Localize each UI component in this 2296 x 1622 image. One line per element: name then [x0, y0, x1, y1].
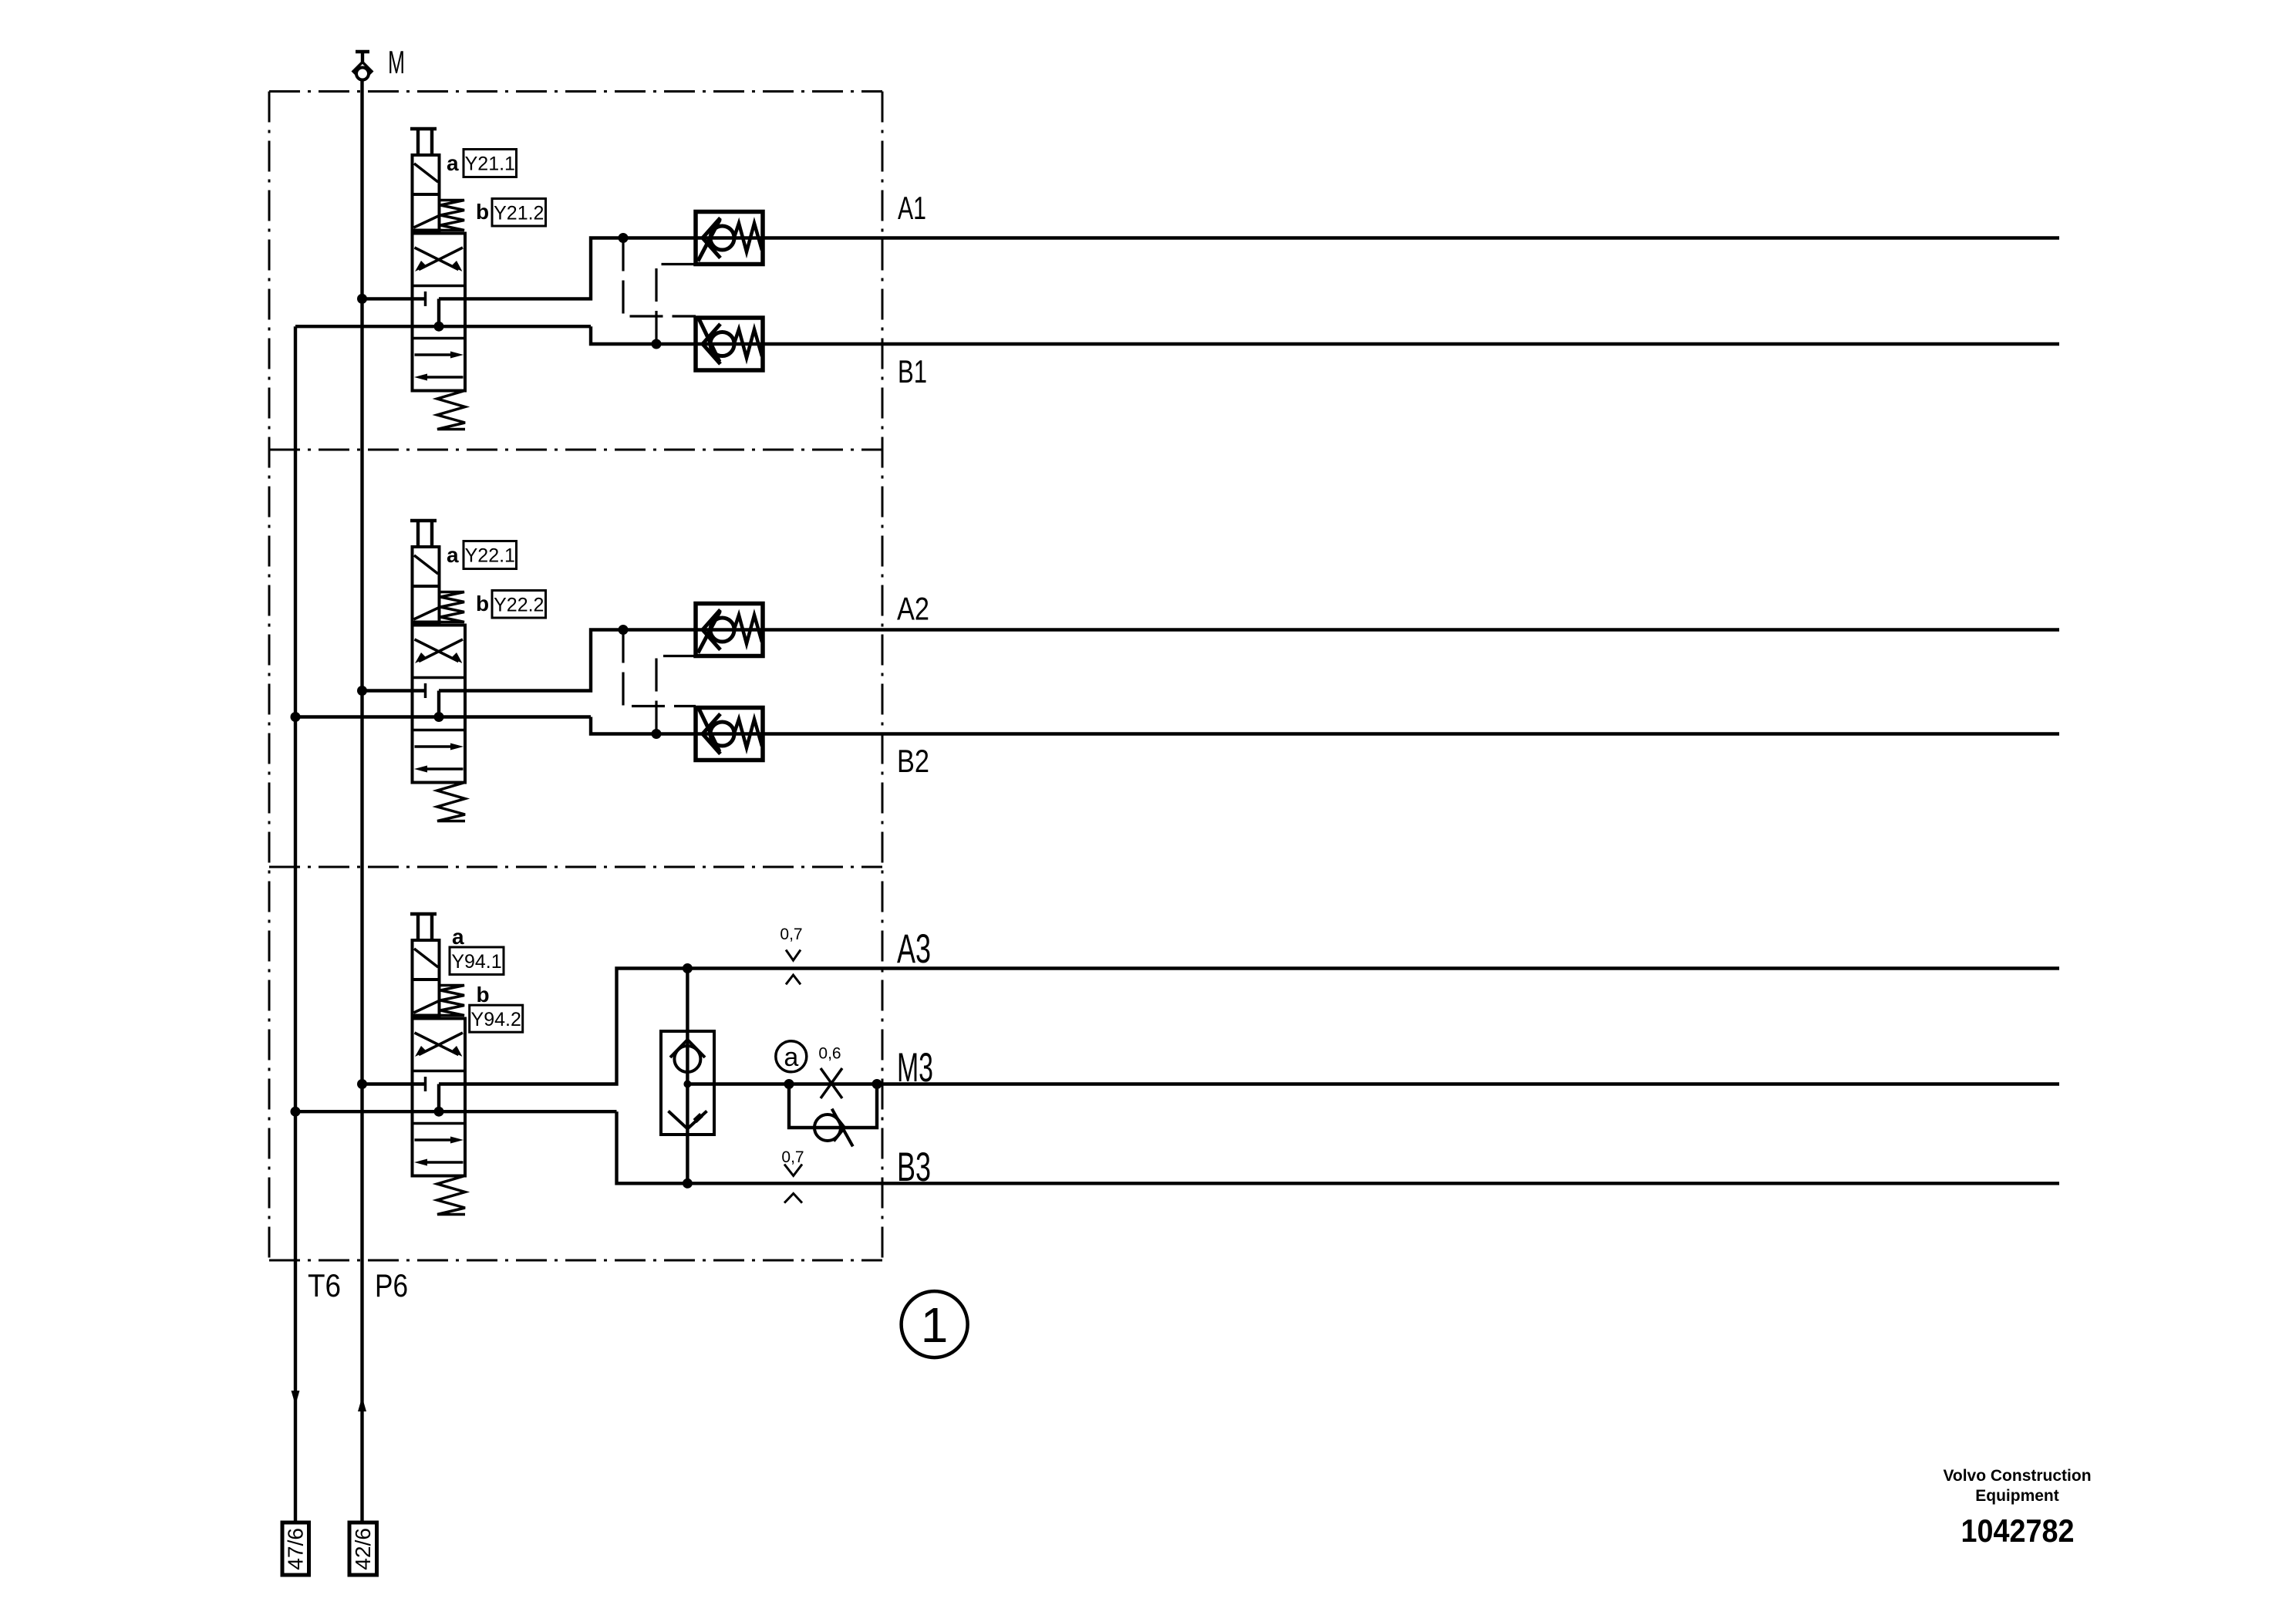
valve body	[413, 1019, 466, 1176]
junction dot A1 pilot	[619, 233, 629, 243]
wire P supply to valve 2	[362, 689, 426, 692]
svg-text:47/6: 47/6	[284, 1528, 308, 1570]
junction dot T6/section3	[291, 1107, 301, 1117]
junction dot B3	[683, 1179, 693, 1189]
junction dot internal/T	[434, 712, 444, 722]
bypass check valve	[814, 1109, 853, 1147]
svg-text:1: 1	[921, 1297, 949, 1353]
lower check valve seat	[669, 1111, 707, 1129]
pilot line A1 to lower check valve	[623, 238, 696, 317]
T6 flow arrow (down)	[292, 1391, 300, 1405]
svg-text:Y21.1: Y21.1	[465, 153, 515, 175]
junction dot internal/T	[434, 322, 444, 332]
svg-text:M3: M3	[897, 1045, 933, 1091]
relief marks 0,7 on B3	[781, 1148, 804, 1203]
solenoid a box (Y22.1)	[413, 547, 440, 586]
relief marks 0,7 on A3	[780, 926, 802, 984]
svg-text:b: b	[477, 983, 490, 1007]
double check valve box	[661, 1031, 714, 1135]
pilot line B1 to upper check valve	[656, 265, 696, 345]
wire T return section 2	[295, 715, 591, 718]
svg-text:Equipment: Equipment	[1975, 1487, 2059, 1505]
svg-text:0,7: 0,7	[781, 1148, 804, 1166]
internal connection to tank	[437, 1084, 440, 1112]
svg-text:0,7: 0,7	[780, 926, 802, 943]
position 3 flow arrows	[414, 744, 464, 773]
junction dot P6/section3	[357, 1079, 367, 1089]
name plate Y22.1	[464, 541, 517, 569]
junction dot P6/section2	[357, 686, 367, 696]
name plate Y94.2	[470, 1005, 523, 1032]
name plate Y94.1	[450, 947, 504, 975]
wire B2 work line	[591, 717, 2059, 734]
position 1 crossed arrows	[415, 248, 464, 271]
Volvo Construction Equipment	[1943, 1467, 2091, 1505]
blocked port tick	[424, 683, 427, 698]
solenoid a box (Y21.1)	[413, 155, 440, 194]
connector 42/6	[349, 1523, 377, 1575]
svg-text:B1: B1	[898, 353, 927, 389]
enclosure dash-dot border	[269, 92, 882, 1261]
junction dot A2 pilot	[619, 625, 629, 635]
throttle check valve A2	[696, 604, 763, 656]
wire M3 line	[687, 1082, 2059, 1085]
svg-text:a: a	[452, 925, 464, 949]
wire A2 work line	[439, 630, 2059, 691]
wire B3 line	[617, 1111, 2060, 1183]
junction dot B1 pilot	[652, 339, 662, 349]
svg-text:1042782: 1042782	[1961, 1512, 2075, 1549]
svg-text:42/6: 42/6	[351, 1528, 375, 1570]
throttle check valve B1	[696, 318, 763, 370]
wire T return section 3	[295, 1110, 617, 1113]
bypass branch with check valve	[784, 1079, 882, 1128]
svg-text:a: a	[447, 543, 459, 567]
svg-text:b: b	[476, 592, 489, 615]
valve body	[413, 234, 466, 391]
blocked port tick	[424, 292, 427, 306]
wire B1 work line	[591, 326, 2059, 344]
svg-text:Y22.1: Y22.1	[465, 545, 515, 567]
connector 47/6	[282, 1523, 309, 1575]
svg-text:Y22.2: Y22.2	[494, 595, 544, 616]
valve body	[413, 626, 466, 783]
solenoid b box (Y22.2)	[413, 586, 440, 622]
junction dot internal/T	[434, 1107, 444, 1117]
svg-text:M: M	[388, 44, 405, 80]
svg-text:A2: A2	[897, 591, 929, 627]
solenoid b spring	[440, 201, 465, 231]
name plate Y22.2	[492, 591, 546, 619]
position 1 crossed arrows	[415, 639, 464, 663]
throttle check valve B2	[696, 708, 763, 760]
solenoid b spring	[440, 986, 465, 1016]
wire P supply to valve 3	[362, 1082, 426, 1085]
svg-text:B3: B3	[897, 1145, 931, 1190]
solenoid b box (Y21.2)	[413, 194, 440, 231]
P6 flow arrow (up)	[358, 1397, 366, 1411]
svg-text:B2: B2	[897, 743, 929, 779]
valve Y22 manual actuator	[410, 521, 437, 547]
valve Y94 manual actuator	[410, 914, 437, 940]
svg-text:a: a	[784, 1043, 798, 1072]
throttle check valve A1	[696, 212, 763, 265]
junction dot B2 pilot	[652, 729, 662, 739]
junction dot M3 tap	[683, 1081, 691, 1088]
valve centering spring	[437, 1176, 465, 1215]
position 3 flow arrows	[414, 1137, 464, 1166]
valve centering spring	[437, 391, 465, 430]
wire A3 line	[439, 969, 2059, 1084]
wire T return section 1	[295, 325, 591, 328]
internal connection to tank	[437, 298, 440, 326]
shuttle vertical line	[686, 969, 689, 1184]
test point M	[353, 52, 372, 81]
svg-text:Y94.2: Y94.2	[471, 1009, 521, 1030]
wire A1 work line	[439, 238, 2059, 299]
internal connection to tank	[437, 691, 440, 717]
name plate Y21.1	[464, 150, 517, 177]
section separator line 2	[269, 866, 882, 868]
solenoid b box (Y94.2)	[413, 980, 440, 1016]
orifice 0,6 on M3	[818, 1045, 842, 1099]
svg-text:T6: T6	[308, 1267, 341, 1303]
svg-text:P6: P6	[375, 1267, 408, 1303]
svg-text:A1: A1	[898, 190, 926, 226]
junction dot A3	[683, 963, 693, 973]
P6 pressure line	[360, 79, 363, 1523]
measuring point a circle	[776, 1041, 807, 1072]
valve centering spring	[437, 783, 465, 821]
wire P supply to valve 1	[362, 297, 426, 300]
pilot line B2 to upper check valve	[656, 656, 696, 734]
solenoid b spring	[440, 592, 465, 622]
upper check valve (seat and ball)	[670, 1040, 705, 1072]
svg-text:a: a	[447, 151, 459, 175]
position 3 flow arrows	[414, 352, 464, 381]
svg-text:b: b	[476, 200, 489, 224]
section separator line 1	[269, 449, 882, 451]
svg-text:Y21.2: Y21.2	[494, 203, 544, 224]
junction dot P6/section1	[357, 294, 367, 304]
svg-text:A3: A3	[897, 926, 931, 972]
solenoid a box (Y94.1)	[413, 940, 440, 980]
valve Y21 manual actuator	[410, 129, 437, 155]
svg-text:0,6: 0,6	[818, 1045, 841, 1063]
junction dot T6/section2	[291, 712, 301, 722]
blocked port tick	[424, 1077, 427, 1091]
svg-text:Volvo Construction: Volvo Construction	[1943, 1467, 2091, 1485]
balloon 1	[902, 1291, 968, 1357]
position 1 crossed arrows	[415, 1033, 464, 1057]
T6 tank line	[294, 326, 297, 1523]
name plate Y21.2	[492, 199, 546, 227]
svg-text:Y94.1: Y94.1	[451, 951, 501, 973]
pilot line A2 to lower check valve	[623, 630, 696, 706]
